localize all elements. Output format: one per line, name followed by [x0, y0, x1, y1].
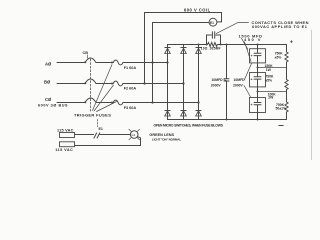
- svg-text:E1: E1: [99, 127, 103, 131]
- svg-text:F1 60A: F1 60A: [124, 66, 137, 70]
- svg-text:2000V: 2000V: [211, 84, 222, 88]
- svg-text:TRIGGER FUSES: TRIGGER FUSES: [74, 112, 111, 117]
- svg-text:1W: 1W: [266, 68, 272, 72]
- svg-text:+: +: [251, 103, 253, 107]
- svg-text:10MFD: 10MFD: [212, 78, 224, 82]
- svg-text:10MFD: 10MFD: [234, 78, 246, 82]
- svg-text:+: +: [251, 77, 253, 81]
- svg-text:+: +: [290, 40, 293, 46]
- svg-text:BØ: BØ: [44, 79, 51, 84]
- svg-text:CØ: CØ: [45, 97, 52, 102]
- svg-text:600VAC APPLIED TO E1: 600VAC APPLIED TO E1: [252, 24, 308, 29]
- svg-text:F2 60A: F2 60A: [124, 86, 137, 90]
- svg-text:2W: 2W: [268, 95, 274, 99]
- svg-text:GREEN LENS: GREEN LENS: [149, 133, 174, 137]
- svg-text:OPEN MICRO SWITCHES, WHEN FUSE: OPEN MICRO SWITCHES, WHEN FUSE BLOWS: [154, 123, 224, 127]
- svg-text:600 V COIL: 600 V COIL: [184, 8, 211, 13]
- svg-text:±5%: ±5%: [265, 79, 272, 83]
- svg-text:±5%: ±5%: [275, 56, 282, 60]
- svg-text:600V 3Ø BUS: 600V 3Ø BUS: [38, 104, 68, 108]
- svg-text:115 VAC: 115 VAC: [55, 148, 73, 152]
- svg-text:450 V: 450 V: [244, 37, 262, 42]
- svg-text:AØ: AØ: [45, 62, 52, 67]
- svg-text:E1: E1: [210, 21, 214, 25]
- svg-text:115 VAC: 115 VAC: [57, 128, 74, 132]
- svg-text:+: +: [251, 54, 253, 58]
- svg-text:2000V: 2000V: [233, 84, 244, 88]
- svg-text:F3 60A: F3 60A: [124, 106, 137, 110]
- svg-text:50±1%: 50±1%: [276, 107, 287, 111]
- svg-text:L1: L1: [132, 133, 136, 137]
- svg-text:LIGHT "ON" NORMAL: LIGHT "ON" NORMAL: [152, 138, 181, 142]
- svg-text:10Ω .025MF: 10Ω .025MF: [201, 46, 221, 50]
- svg-text:CB: CB: [83, 51, 89, 55]
